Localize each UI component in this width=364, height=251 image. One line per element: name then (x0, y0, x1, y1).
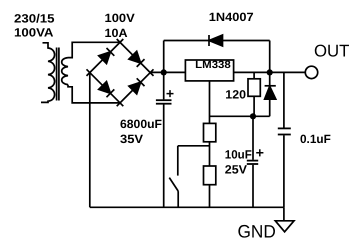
svg-text:35V: 35V (120, 132, 143, 146)
capacitor C2 plus sign (256, 149, 263, 156)
svg-text:LM338: LM338 (195, 59, 231, 71)
capacitor C1 stem bottom (163, 105, 165, 208)
wire up from junction to protection diode rail (163, 41, 165, 73)
bridge diode D2 (left-bottom edge) (87, 69, 124, 106)
svg-text:230/15: 230/15 (14, 11, 55, 25)
transformer T1 primary winding (41, 43, 55, 103)
wire ADJ horizontal (210, 115, 270, 117)
capacitor C1 6800uF plates (156, 99, 172, 101)
wire between R1 and R2 (209, 142, 211, 166)
svg-text:120: 120 (225, 88, 246, 102)
node junction bridge/cap/diode (161, 69, 167, 75)
svg-text:0.1uF: 0.1uF (300, 132, 331, 146)
wire down from top rail to output node (269, 41, 271, 73)
switch S1 blade (169, 178, 178, 192)
capacitor C3 plates (278, 127, 291, 129)
node junction output/diode (267, 69, 273, 75)
ground stem (283, 207, 285, 221)
wire bridge minus (left corner) down to ground rail (89, 73, 91, 208)
switch S1 fixed contact (177, 146, 179, 176)
op-amp regulator U1 LM338 box (185, 60, 233, 81)
svg-text:100V: 100V (105, 11, 135, 25)
ground symbol (275, 221, 294, 232)
svg-text:GND: GND (238, 221, 276, 241)
svg-text:OUT: OUT (314, 41, 349, 60)
wire switch stub (178, 145, 210, 147)
diode 1N4007 D5 (208, 35, 210, 46)
capacitor C1 6800uF stem top (163, 72, 165, 99)
wire below R2 to rail (209, 185, 211, 208)
svg-text:10A: 10A (105, 26, 128, 40)
svg-text:6800uF: 6800uF (120, 117, 162, 131)
terminal OUT circle (305, 66, 317, 78)
capacitor C1 plus sign (167, 90, 174, 97)
capacitor C3 0.1uF stem top (283, 72, 285, 127)
wire LM338 ADJ pin down (209, 81, 211, 124)
diode D6 protection (vertical, cathode up) (269, 72, 271, 85)
wire top rail with 1N4007 (164, 40, 270, 42)
wire secondary top lead to bridge top (68, 42, 120, 57)
wire ground rail (90, 206, 284, 208)
capacitor C2 10uF stem top (252, 116, 254, 160)
svg-text:1N4007: 1N4007 (209, 10, 254, 24)
bridge diode D3 (top-right edge) (117, 39, 154, 76)
svg-text:25V: 25V (225, 162, 247, 176)
capacitor C2 plates (247, 160, 258, 162)
resistor R3 120 top stub (253, 72, 255, 78)
transformer T1 core (57, 48, 59, 101)
bridge diode D1 (left-top edge) (87, 39, 124, 76)
switch S1 bottom lead (177, 191, 179, 207)
svg-text:100VA: 100VA (14, 25, 54, 39)
wire LM338 output to OUT terminal (234, 71, 306, 73)
capacitor C3 stem bottom (283, 135, 285, 207)
node junction ADJ/cap/resistor (250, 113, 256, 119)
resistor R3 120 body (248, 79, 260, 97)
resistor R3 bottom stub (253, 96, 255, 116)
resistor R2 body (204, 166, 216, 185)
transformer T1 secondary winding (62, 58, 68, 85)
capacitor C2 stem bottom (252, 165, 254, 208)
wire bridge plus output to LM338 input (150, 71, 185, 73)
svg-text:10uF: 10uF (225, 147, 252, 161)
wire secondary bottom lead to bridge bottom (68, 85, 120, 103)
bridge diode D4 (bottom-right edge) (117, 69, 154, 106)
resistor R1 body (204, 123, 216, 141)
